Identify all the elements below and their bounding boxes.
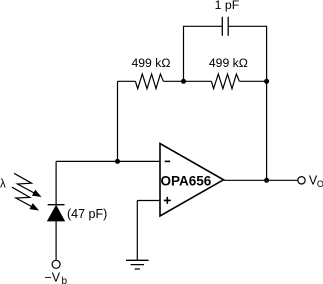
capacitor CF plates — [222, 17, 228, 36]
svg-text:b: b — [62, 276, 68, 284]
terminal -Vb open circle — [52, 260, 60, 268]
wire: feedback baseline middle segment — [163, 80, 211, 82]
svg-text:(47 pF): (47 pF) — [67, 207, 107, 221]
resistor R2 zigzag — [211, 74, 239, 89]
resistor R1 zigzag — [135, 74, 163, 89]
wire: feedback baseline right segment — [239, 80, 266, 82]
wire: left feedback leg down to inverting input — [117, 81, 119, 161]
svg-text:499 kΩ: 499 kΩ — [132, 56, 171, 70]
wire: noninverting leg to ground — [136, 201, 138, 261]
light arrow 2 — [12, 187, 32, 207]
wire: noninverting input — [137, 200, 160, 202]
junction: feedback right node — [264, 79, 269, 84]
light arrow 1 — [14, 173, 34, 193]
svg-text:λ: λ — [0, 179, 6, 191]
wire: right feedback leg down to output node — [266, 81, 268, 180]
wire: output — [224, 179, 298, 181]
junction: inverting input node — [115, 159, 120, 164]
junction: output node — [264, 178, 269, 183]
ground symbol — [126, 260, 149, 269]
svg-text:OPA656: OPA656 — [161, 173, 212, 188]
junction: node between R1 and R2 — [181, 79, 186, 84]
svg-text:499 kΩ: 499 kΩ — [209, 56, 248, 70]
wire: feedback baseline left segment — [118, 80, 136, 82]
terminal VO open circle — [298, 177, 305, 184]
wire: inverting input from photodiode — [56, 160, 160, 162]
photodiode D1 triangle — [48, 206, 65, 221]
op-amp noninverting input plus sign — [164, 197, 171, 204]
wire: feedback top branch right (cap right plate to right leg) — [229, 26, 267, 81]
svg-text:1 pF: 1 pF — [215, 0, 240, 12]
wire: photodiode anode stem — [55, 221, 57, 260]
wire: feedback top branch left (node A to cap left plate) — [184, 26, 222, 81]
svg-text:O: O — [317, 179, 323, 189]
op-amp inverting input minus sign — [165, 160, 171, 162]
op-amp U1 triangle — [160, 144, 224, 217]
wire: photodiode cathode stem — [55, 161, 57, 204]
svg-text:−V: −V — [45, 270, 61, 284]
photodiode D1 cathode bar — [48, 204, 65, 206]
